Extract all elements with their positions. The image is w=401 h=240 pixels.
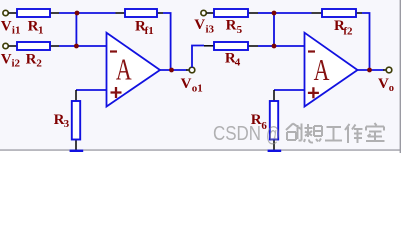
label R3 xyxy=(54,112,70,130)
label Vi3 xyxy=(194,17,214,35)
junction node inverting input U1 xyxy=(74,44,79,49)
svg-text:f1: f1 xyxy=(145,25,154,37)
ground bar stage 1 xyxy=(70,150,84,152)
resistor R4 xyxy=(204,42,258,50)
input terminal Vi3 xyxy=(201,10,214,15)
svg-text:V: V xyxy=(378,76,389,92)
wire junction to U1 inverting input xyxy=(76,45,106,47)
svg-text:i3: i3 xyxy=(206,23,215,35)
svg-text:2: 2 xyxy=(36,58,42,70)
wire junction to Rf1 xyxy=(77,12,116,14)
svg-text:5: 5 xyxy=(237,24,243,36)
svg-text:f2: f2 xyxy=(343,25,353,37)
junction node R5 Rf2 xyxy=(272,11,277,16)
svg-text:i1: i1 xyxy=(12,25,21,37)
wire junction R5 down to inverting node xyxy=(273,13,275,46)
op-amp U2 xyxy=(305,33,358,107)
minus sign U1 xyxy=(110,50,117,52)
wire U2 plus input xyxy=(274,89,304,91)
label R2 xyxy=(26,52,43,70)
label Rf1 xyxy=(135,19,154,38)
op-amp U1 xyxy=(107,33,161,107)
wire R4 to junction stage 2 xyxy=(258,45,274,47)
minus sign U2 xyxy=(308,50,315,52)
resistor R5 xyxy=(214,9,258,17)
resistor R2 xyxy=(17,42,59,50)
plus sign U2 xyxy=(308,87,319,98)
wire Rf2 to output node xyxy=(362,13,370,70)
label Vi2 xyxy=(1,51,21,69)
svg-text:R: R xyxy=(26,52,37,68)
label Rf2 xyxy=(334,18,353,37)
input terminal Vi2 xyxy=(3,43,17,48)
wire U2 output to Vo xyxy=(358,69,384,71)
resistor R1 xyxy=(17,9,59,17)
wire joining input junctions xyxy=(75,13,77,46)
wire junction to U2 inverting input xyxy=(274,45,304,47)
wire junction to Rf2 xyxy=(274,12,312,14)
svg-text:4: 4 xyxy=(235,56,241,68)
svg-text:A: A xyxy=(314,52,330,87)
svg-text:3: 3 xyxy=(64,118,70,130)
svg-text:A: A xyxy=(116,52,132,87)
label Vi1 xyxy=(1,18,21,36)
svg-text:i2: i2 xyxy=(12,57,21,69)
plus sign U1 xyxy=(111,87,122,98)
svg-text:V: V xyxy=(1,51,12,67)
wire Vo1 to R4 xyxy=(192,46,204,68)
svg-text:R: R xyxy=(226,18,237,34)
svg-text:CSDN: CSDN xyxy=(213,122,261,145)
label Vo xyxy=(378,76,394,94)
wire R1 to junction xyxy=(59,12,77,14)
svg-text:1: 1 xyxy=(38,25,44,37)
junction node R1 Rf1 xyxy=(75,11,80,16)
resistor R3 xyxy=(72,90,80,150)
svg-text:o: o xyxy=(389,83,394,94)
label R4 xyxy=(225,51,241,69)
junction node inverting input U2 xyxy=(272,44,277,49)
ground bar stage 2 xyxy=(268,150,282,152)
wire U1 output to Vo1 xyxy=(160,69,186,71)
wire U1 plus input xyxy=(76,89,106,91)
resistor R6 xyxy=(270,90,278,150)
wire R5 to junction xyxy=(258,12,274,14)
label R6 xyxy=(251,112,268,132)
svg-text:V: V xyxy=(194,17,205,33)
label Vo1 xyxy=(181,76,203,95)
terminal Vo xyxy=(383,67,392,73)
resistor Rf2 xyxy=(312,9,363,17)
label R1 xyxy=(28,19,44,37)
svg-text:R: R xyxy=(28,19,39,35)
input terminal Vi1 xyxy=(3,10,17,15)
wire Rf1 to output node xyxy=(163,13,171,70)
svg-text:@: @ xyxy=(266,124,280,147)
resistor Rf1 xyxy=(116,9,164,17)
svg-text:o1: o1 xyxy=(192,83,203,95)
label R5 xyxy=(226,18,243,36)
svg-text:V: V xyxy=(1,18,12,34)
terminal Vo1 xyxy=(186,67,195,73)
wire R2 to junction xyxy=(59,45,76,47)
junction output node stage 1 xyxy=(169,68,174,73)
svg-text:V: V xyxy=(181,76,192,92)
junction output node stage 2 xyxy=(367,68,372,73)
